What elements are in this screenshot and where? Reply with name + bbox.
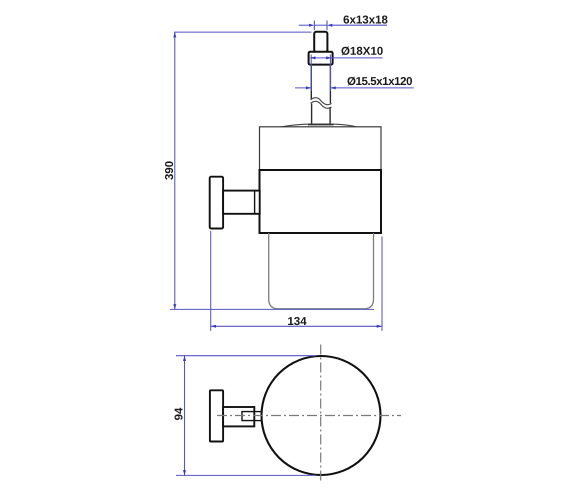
dim 134 dimension line bbox=[211, 325, 382, 327]
dim text 6x13x18 bbox=[344, 16, 388, 24]
dim 134 arrowheads bbox=[211, 325, 382, 328]
dim text 390 (rotated) bbox=[165, 161, 173, 179]
dim text O15.5x1x120 bbox=[348, 77, 413, 86]
dim 94 dimension line bbox=[184, 356, 186, 476]
pump tip bbox=[314, 32, 327, 52]
pump tube upper segment bbox=[311, 65, 330, 104]
dim 390 dimension line bbox=[174, 32, 176, 309]
arm end line (plan view) bbox=[253, 408, 255, 427]
dim 6x13x18 dimension line bbox=[299, 24, 387, 26]
dim O18X10 extension lines bbox=[311, 55, 330, 92]
dim O15.5x1x120 arrowheads bbox=[306, 86, 336, 89]
bracket arm (front view) bbox=[223, 191, 260, 214]
lid (top cap) bbox=[260, 127, 382, 170]
arm tongue (plan view) bbox=[242, 412, 261, 421]
dim 134 left extension line bbox=[210, 231, 212, 331]
dim 6x13x18 extension ticks bbox=[314, 21, 327, 31]
dim O18X10 dimension line bbox=[310, 57, 382, 59]
lid dome flare bbox=[279, 124, 359, 127]
dim 94 top extension line bbox=[176, 355, 316, 357]
arm end collar line bbox=[254, 191, 256, 213]
vertical centerline bbox=[320, 345, 322, 482]
pump base seat line bbox=[308, 124, 334, 126]
wall flange (plan view) bbox=[210, 390, 223, 441]
dim text 94 (rotated) bbox=[175, 408, 183, 420]
dim 6x13x18 arrowheads bbox=[309, 24, 332, 27]
dim 94 bottom extension line bbox=[176, 474, 316, 476]
dim 390 top extension line bbox=[174, 31, 312, 33]
dim 134 right extension line bbox=[381, 237, 383, 331]
pump tube lower segment bbox=[312, 104, 331, 125]
dim 94 arrowheads bbox=[183, 356, 186, 476]
dim O15.5x1x120 dimension line bbox=[295, 87, 414, 89]
plan view circle bbox=[262, 356, 381, 475]
tube break squiggle bbox=[311, 98, 332, 109]
dim text O18X10 bbox=[342, 47, 383, 56]
dim text 134 bbox=[288, 317, 306, 325]
bracket arm (plan view) bbox=[223, 407, 254, 426]
glass tumbler bbox=[269, 233, 374, 309]
holder body ring bbox=[260, 170, 382, 233]
pump collar bbox=[309, 52, 333, 65]
wall flange (front view) bbox=[210, 177, 223, 229]
dim 390 bottom extension line bbox=[170, 308, 374, 310]
dim O18X10 arrowheads bbox=[310, 56, 331, 59]
dim 390 arrowheads bbox=[173, 32, 176, 309]
horizontal centerline bbox=[217, 415, 401, 417]
